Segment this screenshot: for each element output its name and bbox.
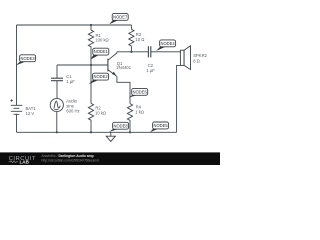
node NODE7 bbox=[109, 13, 128, 24]
svg-text:NODE4: NODE4 bbox=[161, 41, 176, 46]
voltage source V1 audio sine 600 Hz bbox=[50, 98, 63, 111]
junction collector wire / R3 bbox=[130, 51, 132, 53]
junction top rail / R1 bbox=[90, 24, 92, 26]
wire left rail (top rail down to battery +) bbox=[16, 25, 18, 105]
svg-text:1 kΩ: 1 kΩ bbox=[135, 110, 144, 115]
svg-text:12 V: 12 V bbox=[26, 111, 35, 116]
junction bottom rail / R2 bbox=[90, 131, 92, 133]
wire collector to C2 bbox=[117, 51, 148, 53]
svg-text:600 Hz: 600 Hz bbox=[66, 108, 79, 113]
svg-text:100 kΩ: 100 kΩ bbox=[95, 38, 108, 43]
node NODE4 bbox=[156, 40, 175, 51]
svg-text:SPKR2: SPKR2 bbox=[193, 53, 207, 58]
svg-text:Aravinths / Darlington Audio a: Aravinths / Darlington Audio amp bbox=[42, 154, 94, 158]
svg-text:2N4401: 2N4401 bbox=[116, 65, 131, 70]
svg-text:NODE6: NODE6 bbox=[133, 89, 148, 94]
junction bottom rail / source bbox=[56, 131, 58, 133]
junction bottom rail / R4 bbox=[129, 131, 131, 133]
wire C2 to speaker bbox=[151, 51, 181, 53]
node NODE2 bbox=[89, 73, 109, 84]
svg-text:NODE7: NODE7 bbox=[113, 14, 128, 19]
svg-text:NODE1: NODE1 bbox=[94, 49, 109, 54]
svg-text:10 kΩ: 10 kΩ bbox=[95, 111, 106, 116]
svg-text:NODE2: NODE2 bbox=[94, 74, 109, 79]
wire emitter to R4 bbox=[117, 76, 130, 103]
wire speaker bottom to ground rail bbox=[177, 65, 181, 132]
wire top rail (battery + to R1/R3) bbox=[17, 24, 132, 26]
svg-text:NODE3: NODE3 bbox=[21, 56, 36, 61]
capacitor C2 bbox=[148, 46, 150, 57]
svg-text:10 Ω: 10 Ω bbox=[135, 37, 144, 42]
svg-text:NODE5: NODE5 bbox=[154, 123, 169, 128]
wire bottom rail bbox=[17, 131, 177, 133]
resistor R4 bbox=[127, 104, 132, 133]
svg-text:1 µF: 1 µF bbox=[146, 68, 155, 73]
wire base (C1 to Q1 base) bbox=[57, 64, 108, 66]
node NODE3 bbox=[16, 55, 36, 66]
svg-text:1 µF: 1 µF bbox=[66, 79, 75, 84]
CircuitLab logo bbox=[9, 156, 36, 164]
svg-text:LAB: LAB bbox=[20, 160, 30, 165]
capacitor C1 bbox=[56, 65, 58, 78]
transistor Q1 2N4401 bbox=[108, 52, 117, 77]
node NODE8 bbox=[109, 122, 129, 132]
node NODE1 bbox=[90, 48, 109, 59]
resistor R1 bbox=[88, 25, 93, 65]
svg-text:http://circuitlab.com/c/9fb347: http://circuitlab.com/c/9fb347/6faeamd bbox=[42, 158, 99, 162]
node NODE6 bbox=[129, 88, 148, 97]
resistor R2 bbox=[88, 103, 93, 132]
node NODE5 bbox=[150, 122, 169, 132]
battery BAT1 bbox=[10, 99, 22, 132]
wire source bottom to ground rail bbox=[56, 112, 58, 133]
speaker SPKR2 bbox=[180, 46, 190, 70]
resistor R3 bbox=[129, 25, 134, 52]
junction base wire / R1-R2 column bbox=[90, 64, 92, 66]
wire R1 bottom to R2 top bbox=[90, 65, 92, 103]
ground bbox=[106, 132, 115, 141]
svg-text:NODE8: NODE8 bbox=[114, 123, 129, 128]
CircuitLab banner bbox=[0, 152, 220, 165]
svg-text:8 Ω: 8 Ω bbox=[193, 59, 200, 64]
